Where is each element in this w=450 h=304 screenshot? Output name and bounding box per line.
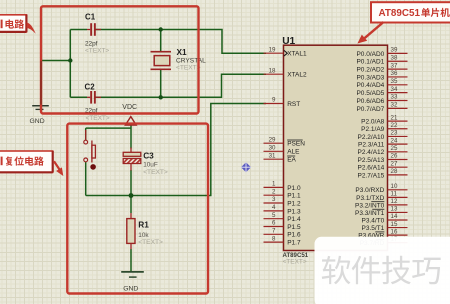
pin 13 P3.3/INT1 [388,211,408,213]
svg-text:19: 19 [269,46,276,53]
svg-text:P2.1/A9: P2.1/A9 [361,126,385,133]
pin 10 P3.0/RXD [388,189,408,191]
pin 24 P2.3/A11 [388,143,408,145]
svg-text:31: 31 [269,152,276,159]
wire button top leg [85,128,87,140]
svg-text:X1: X1 [177,47,188,57]
svg-text:P2.6/A14: P2.6/A14 [358,165,385,172]
svg-text:P0.1/AD1: P0.1/AD1 [356,59,384,66]
svg-text:26: 26 [391,153,398,160]
callout label: crystal circuit (晶振电路) [0,15,27,32]
svg-text:P0.3/AD3: P0.3/AD3 [356,74,384,81]
svg-text:29: 29 [269,136,276,143]
pin 12 P3.2/INT0 [388,204,408,206]
svg-text:P0.4/AD4: P0.4/AD4 [356,82,384,89]
svg-text:P2.7/A15: P2.7/A15 [358,172,385,179]
svg-text:14: 14 [391,213,398,220]
svg-text:<TEXT>: <TEXT> [86,115,110,122]
wire VCC down to C3 [130,125,132,149]
svg-text:P0.5/AD5: P0.5/AD5 [356,90,384,97]
svg-text:30: 30 [269,145,276,152]
pin 25 P2.4/A12 [388,151,408,153]
svg-text:P2.5/A13: P2.5/A13 [358,157,385,164]
annotation box: reset circuit [67,124,208,294]
wire GND to C1/C2 branch [41,60,70,62]
svg-text:32: 32 [391,102,398,109]
pin 30 ALE [264,150,284,152]
pin 19 XTAL1 [264,52,284,54]
wire C2 left segment [70,96,87,98]
watermark 软件技巧 [315,237,450,304]
svg-text:C2: C2 [85,83,96,92]
pin 21 P2.0/A8 [388,120,408,122]
pin 28 P2.7/A15 [388,174,408,176]
svg-text:9: 9 [272,97,276,104]
svg-text:<TEXT>: <TEXT> [176,64,201,71]
pin 6 P1.5 [264,226,284,228]
svg-text:C3: C3 [143,151,154,161]
svg-text:<TEXT>: <TEXT> [85,47,109,54]
pin 17 P3.7/RD [388,242,408,244]
callout label: AT89C51 MCU (AT89C51单片机) [371,2,450,22]
svg-text:P0.7/AD7: P0.7/AD7 [356,106,384,113]
wire R1 bottom to ground [130,249,132,271]
svg-text:P2.3/A11: P2.3/A11 [358,142,385,149]
wire C1-left to C2-left vertical [69,30,71,98]
pin 23 P2.2/A10 [388,135,408,137]
capacitor C2 [87,96,90,98]
annotation box: crystal circuit [41,6,199,113]
pin 3 P1.2 [264,202,284,204]
pin 36 P0.3/AD3 [388,76,408,78]
pin 33 P0.6/AD6 [388,100,408,102]
svg-text:36: 36 [391,70,398,77]
svg-text:22: 22 [391,122,398,129]
pin 9 RST [264,103,284,105]
svg-text:P2.4/A12: P2.4/A12 [358,149,385,156]
pin 14 P3.4/T0 [388,219,408,221]
wire junction to R1 top [130,196,132,214]
svg-text:1: 1 [272,181,276,188]
svg-text:P1.2: P1.2 [287,200,301,207]
wire button top to VCC rail [86,127,131,129]
junction node C1/C2/GND [68,58,72,62]
svg-text:27: 27 [391,160,398,167]
svg-text:2: 2 [272,188,276,195]
origin marker [241,162,251,172]
wire GND stem (crystal circuit) [40,61,42,105]
pin 32 P0.7/AD7 [388,107,408,109]
svg-text:5: 5 [272,212,276,219]
svg-text:PSEN: PSEN [287,141,305,148]
svg-text:P1.6: P1.6 [287,232,301,239]
svg-text:P1.3: P1.3 [287,208,301,215]
wire C1 right to XTAL1 pin19 [96,30,267,54]
pin 26 P2.5/A13 [388,159,408,161]
svg-text:33: 33 [391,94,398,101]
button junction dot [90,164,96,170]
pin 1 P1.0 [264,186,284,188]
wire RST: chip pin9 to reset junction [86,104,266,196]
pin 8 P1.7 [264,241,284,243]
pin 16 P3.6/WR [388,234,408,236]
wire C1 left segment [70,29,87,31]
crystal X1 [151,51,172,53]
svg-text:XTAL1: XTAL1 [287,51,307,58]
pin 31 EA [264,158,284,160]
pin 2 P1.1 [264,194,284,196]
wire C3 bottom to junction [130,170,132,196]
pin 29 PSEN [264,142,284,144]
svg-text:GND: GND [30,118,45,125]
svg-text:P3.3/INT1: P3.3/INT1 [355,210,385,217]
svg-text:7: 7 [272,228,276,235]
svg-text:AT89C51: AT89C51 [379,8,421,19]
svg-text:10uF: 10uF [143,162,158,169]
svg-text:4: 4 [272,204,276,211]
pin 27 P2.6/A14 [388,166,408,168]
svg-text:35: 35 [391,78,398,85]
svg-text:28: 28 [391,168,398,175]
wire crystal top branch [160,30,162,52]
resistor R1 [130,213,132,219]
wire button bottom leg [85,162,87,196]
callout label: reset circuit (复位电路) [0,151,53,172]
svg-text:P3.1/TXD: P3.1/TXD [356,195,384,202]
svg-text:24: 24 [391,137,398,144]
svg-text:12: 12 [391,198,398,205]
svg-text:P2.2/A10: P2.2/A10 [358,134,385,141]
svg-text:34: 34 [391,86,398,93]
pin 35 P0.4/AD4 [388,84,408,86]
pin 11 P3.1/TXD [388,196,408,198]
svg-text:P3.4/T0: P3.4/T0 [362,217,385,224]
svg-text:P3.2/INT0: P3.2/INT0 [355,202,385,209]
svg-text:P3.0/RXD: P3.0/RXD [355,187,384,194]
svg-text:38: 38 [391,54,398,61]
svg-text:21: 21 [391,114,398,121]
svg-text:C1: C1 [85,13,96,22]
svg-text:16: 16 [391,228,398,235]
svg-text:P3.5/T1: P3.5/T1 [362,225,385,232]
svg-text:GND: GND [123,285,138,292]
capacitor C3 (polarized) [130,148,132,153]
svg-text:P1.7: P1.7 [287,240,301,247]
pin 4 P1.3 [264,210,284,212]
svg-text:<TEXT>: <TEXT> [138,239,163,246]
pin 15 P3.5/T1 [388,227,408,229]
svg-text:10: 10 [391,183,398,190]
svg-text:15: 15 [391,221,398,228]
svg-text:39: 39 [391,47,398,54]
svg-text:P1.4: P1.4 [287,216,301,223]
svg-text:P1.0: P1.0 [287,185,301,192]
svg-text:<TEXT>: <TEXT> [283,258,307,265]
svg-text:P1.1: P1.1 [287,193,301,200]
svg-text:3: 3 [272,196,276,203]
pin 7 P1.6 [264,233,284,235]
svg-text:37: 37 [391,62,398,69]
push button (reset) [85,130,87,140]
pin 5 P1.4 [264,218,284,220]
svg-text:ALE: ALE [287,149,300,156]
capacitor C1 [87,29,90,31]
ground (crystal circuit) [32,105,49,107]
svg-text:P1.5: P1.5 [287,224,301,231]
svg-text:VDC: VDC [122,104,137,111]
svg-text:P0.2/AD2: P0.2/AD2 [356,67,384,74]
svg-text:CRYSTAL: CRYSTAL [176,57,206,64]
svg-text:22pf: 22pf [85,40,98,47]
wire crystal bottom branch [160,70,162,97]
svg-text:U1: U1 [282,36,295,47]
svg-text:25: 25 [391,145,398,152]
wire C2 right to XTAL2 pin18 [96,74,267,97]
svg-text:8: 8 [272,235,276,242]
junction node RST/C3/R1 [129,193,134,198]
svg-text:XTAL2: XTAL2 [287,72,307,79]
svg-text:<TEXT>: <TEXT> [143,169,168,176]
svg-text:R1: R1 [138,220,149,230]
svg-text:P0.0/AD0: P0.0/AD0 [356,51,384,58]
pin 34 P0.5/AD5 [388,92,408,94]
pin 18 XTAL2 [264,73,284,75]
op IC U1 AT89C51 body [284,45,388,250]
svg-text:P2.0/A8: P2.0/A8 [361,119,385,126]
ground (reset circuit) [121,271,144,273]
pin 39 P0.0/AD0 [388,52,408,54]
pin 38 P0.1/AD1 [388,60,408,62]
pin 22 P2.1/A9 [388,128,408,130]
junction node crystal bottom [159,95,163,99]
pin 37 P0.2/AD2 [388,68,408,70]
svg-text:RST: RST [287,101,300,108]
svg-text:23: 23 [391,130,398,137]
svg-text:6: 6 [272,220,276,227]
svg-text:13: 13 [391,206,398,213]
svg-text:EA: EA [287,157,296,164]
svg-text:P0.6/AD6: P0.6/AD6 [356,98,384,105]
wire GND overlap on box edge [40,61,42,105]
svg-text:18: 18 [269,67,276,74]
svg-text:11: 11 [391,191,398,198]
junction node crystal top [159,27,163,31]
